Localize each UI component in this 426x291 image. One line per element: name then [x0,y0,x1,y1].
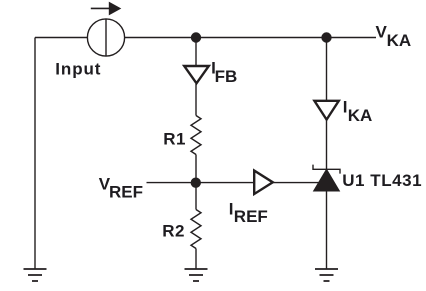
svg-text:Input: Input [55,60,101,79]
svg-text:R2: R2 [162,222,185,241]
svg-text:R1: R1 [163,130,186,149]
svg-text:KA: KA [348,106,373,125]
svg-text:U1 TL431: U1 TL431 [342,171,422,190]
svg-text:REF: REF [109,182,143,201]
svg-text:REF: REF [234,207,268,226]
svg-text:KA: KA [387,31,412,50]
svg-text:FB: FB [215,67,238,86]
svg-text:I: I [229,200,234,219]
